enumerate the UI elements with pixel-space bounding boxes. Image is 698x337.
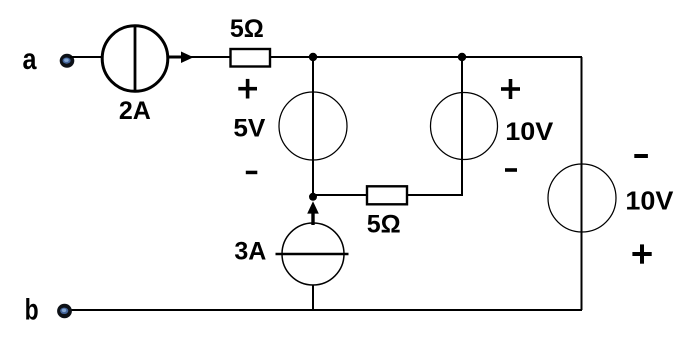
wire middle horizontal (313, 194, 462, 196)
wire left middle vertical branch (312, 57, 314, 196)
voltage source V1 5V (279, 92, 347, 160)
wire top from R1 to top-right corner (269, 56, 582, 58)
current source I1 2A (102, 26, 168, 92)
current source I2 3A arrow (307, 201, 319, 225)
plus sign of V1 (238, 79, 257, 99)
svg-text:10V: 10V (625, 186, 674, 216)
svg-text:2A: 2A (119, 97, 151, 125)
minus sign of V3 (634, 154, 648, 158)
minus sign of V1 (246, 171, 257, 175)
svg-text:a: a (23, 43, 37, 76)
node junction middle (309, 193, 317, 201)
current source I2 3A (276, 223, 349, 285)
svg-text:b: b (25, 294, 39, 327)
wire right vertical branch (581, 57, 583, 310)
voltage source V3 10V right (548, 164, 616, 232)
voltage source V2 10V middle (431, 93, 498, 160)
svg-text:10V: 10V (505, 118, 553, 146)
wire right middle vertical branch (461, 57, 463, 196)
svg-text:5Ω: 5Ω (367, 211, 401, 239)
node junction top left (309, 53, 317, 61)
wire 3A to bottom rail (312, 285, 314, 311)
svg-text:3A: 3A (234, 237, 266, 265)
wire bottom rail (70, 309, 582, 311)
plus sign of V3 (632, 244, 651, 263)
terminal a (60, 54, 75, 68)
resistor R2 5ohm middle (367, 186, 407, 204)
svg-text:5Ω: 5Ω (230, 15, 264, 43)
wire current source output with arrow (167, 52, 231, 64)
wire a to current source (70, 56, 103, 58)
resistor R1 5ohm top (231, 49, 271, 67)
minus sign of V2 (505, 168, 517, 172)
node junction top right (458, 53, 466, 61)
terminal b (57, 304, 72, 318)
svg-text:5V: 5V (233, 115, 265, 143)
plus sign of V2 (501, 79, 520, 99)
